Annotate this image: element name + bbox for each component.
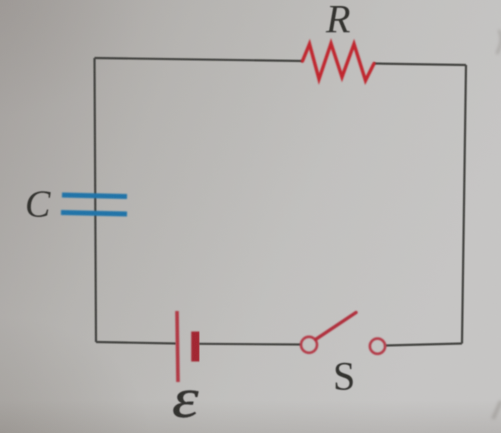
capacitor C bottom plate: [61, 213, 127, 215]
stray mark top-right edge: [497, 30, 501, 54]
battery (emf source) short negative plate: [191, 332, 200, 362]
wire right segment: [462, 65, 466, 344]
wire bottom-middle segment: [199, 343, 301, 346]
wire left segment: [95, 58, 97, 342]
battery (emf source) long positive plate: [177, 311, 178, 382]
wire bottom-left segment: [96, 342, 176, 344]
switch S right contact: [370, 339, 385, 354]
wire top-right segment: [374, 64, 466, 66]
capacitor C top plate: [62, 195, 127, 197]
wire top-left segment: [95, 58, 303, 61]
switch S lever arm: [316, 313, 357, 340]
switch S left contact: [301, 337, 317, 353]
faint mark bottom-right edge: [493, 401, 501, 419]
wire bottom-right segment: [386, 344, 463, 346]
resistor R zigzag: [303, 44, 375, 81]
